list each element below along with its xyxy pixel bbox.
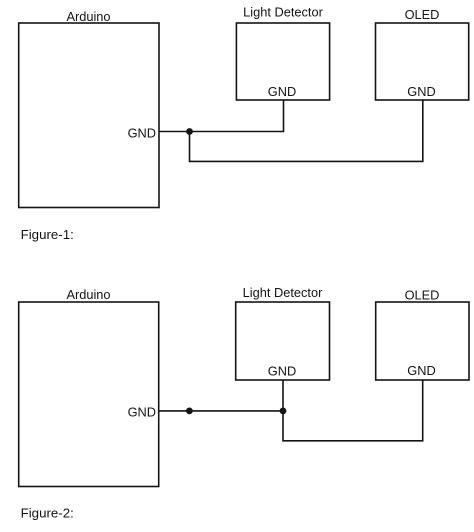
svg-text:Arduino: Arduino [66,287,110,302]
svg-text:GND: GND [407,84,435,99]
svg-text:GND: GND [128,405,156,420]
wire junction down and across to OLED (Figure-1) [190,100,423,161]
block Light Detector (Figure-1) [236,23,329,100]
wire Arduino GND to Light Detector junction (Figure-2) [159,380,283,411]
block OLED (Figure-2) [376,302,469,380]
svg-text:OLED: OLED [405,287,440,302]
block Light Detector (Figure-2) [236,302,330,380]
svg-text:Arduino: Arduino [66,9,110,24]
junction dot on Arduino wire (Figure-2) [186,408,193,415]
wire Light Detector junction down and across to OLED (Figure-2) [283,380,423,441]
svg-text:GND: GND [128,125,156,140]
svg-text:Light Detector: Light Detector [243,4,323,19]
svg-text:GND: GND [268,363,296,378]
wire Arduino GND to junction to Light Detector (Figure-1) [159,100,284,132]
svg-text:OLED: OLED [405,7,440,22]
block OLED (Figure-1) [376,23,469,100]
svg-text:GND: GND [407,363,435,378]
svg-text:GND: GND [268,84,296,99]
junction dot at Light Detector tap (Figure-2) [280,408,287,415]
svg-text:Light Detector: Light Detector [243,285,323,300]
junction dot (Figure-1) [186,128,193,135]
block Arduino (Figure-2) [19,302,159,487]
svg-text:Figure-1:: Figure-1: [21,227,74,242]
svg-text:Figure-2:: Figure-2: [21,506,74,521]
block Arduino (Figure-1) [19,23,159,208]
